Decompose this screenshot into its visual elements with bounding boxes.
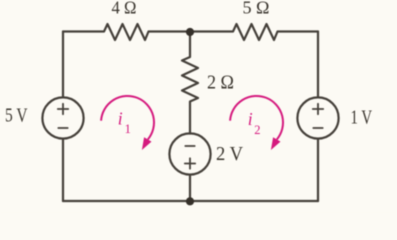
svg-text:2 Ω: 2 Ω — [207, 72, 234, 94]
svg-text:1 V: 1 V — [351, 107, 373, 129]
svg-text:5 V: 5 V — [5, 105, 28, 127]
svg-text:2 V: 2 V — [216, 143, 244, 165]
svg-text:i: i — [118, 109, 123, 129]
svg-text:4 Ω: 4 Ω — [112, 0, 137, 17]
svg-text:i: i — [248, 109, 253, 129]
svg-text:2: 2 — [254, 123, 260, 137]
svg-text:1: 1 — [125, 122, 131, 136]
svg-text:5 Ω: 5 Ω — [243, 0, 270, 18]
